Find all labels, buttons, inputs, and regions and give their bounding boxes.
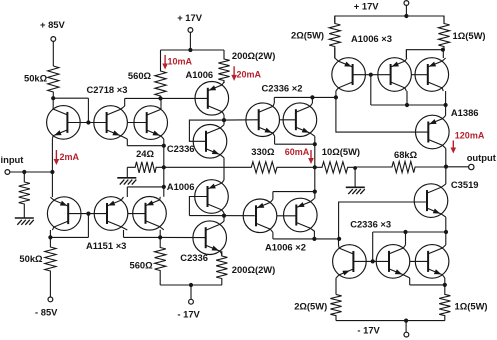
wire Q17 collector xyxy=(445,91,447,105)
wire Q9 collector xyxy=(223,213,225,216)
resistor 24ohm xyxy=(127,148,164,173)
label 2ohm lower xyxy=(294,300,327,311)
node output xyxy=(444,165,448,169)
transistor Q16 A1006 xyxy=(378,58,412,92)
wire base to Wtop xyxy=(370,75,372,105)
current 10mA xyxy=(162,55,192,70)
node 10-68k xyxy=(353,166,357,170)
svg-text:A1386: A1386 xyxy=(451,107,479,118)
svg-text:560Ω: 560Ω xyxy=(130,259,154,270)
base line row2 xyxy=(67,213,145,215)
wire Q13 emitter xyxy=(273,192,315,200)
svg-text:200Ω(2W): 200Ω(2W) xyxy=(232,50,275,61)
svg-text:330Ω: 330Ω xyxy=(251,146,275,157)
svg-text:1Ω(5W): 1Ω(5W) xyxy=(455,300,488,311)
svg-text:50kΩ: 50kΩ xyxy=(24,73,48,84)
node T4 collector xyxy=(48,235,52,239)
wire Q12 collector xyxy=(311,97,313,103)
svg-text:68kΩ: 68kΩ xyxy=(394,149,418,160)
svg-text:2Ω(5W): 2Ω(5W) xyxy=(291,30,324,41)
resistor 200 upper xyxy=(218,50,229,83)
transistor Q17 A1006 xyxy=(415,58,449,92)
wire Q19 collector xyxy=(445,167,447,185)
wire Q7 collector xyxy=(223,115,225,120)
transistor Q3 C2718 xyxy=(134,106,168,140)
label C2336 x2 xyxy=(262,83,303,94)
transistor Q13 A1006 xyxy=(243,199,277,233)
svg-text:C3519: C3519 xyxy=(451,179,479,190)
node pair2 emitter bus xyxy=(313,190,317,194)
svg-text:A1006: A1006 xyxy=(167,181,195,192)
wire Q14 collector xyxy=(313,232,315,239)
wire Q16 emitter xyxy=(405,50,407,58)
wire X1 L xyxy=(189,120,224,141)
svg-text:C2336 ×2: C2336 ×2 xyxy=(262,83,303,94)
node base U xyxy=(369,73,373,77)
svg-text:50kΩ: 50kΩ xyxy=(19,253,43,264)
wire +17V right drop xyxy=(405,5,407,16)
svg-text:C2336 ×3: C2336 ×3 xyxy=(350,218,391,229)
svg-text:2Ω(5W): 2Ω(5W) xyxy=(294,300,327,311)
svg-text:+ 85V: + 85V xyxy=(40,19,66,30)
resistor 2ohm upper xyxy=(329,16,340,59)
wire Q20 emitter xyxy=(335,278,337,295)
svg-text:2mA: 2mA xyxy=(60,152,80,162)
wire Q3 collector xyxy=(160,98,162,106)
transistor Q11 C2336 xyxy=(246,103,280,137)
terminal +17V mid xyxy=(177,12,203,32)
transistor Q7 A1006 xyxy=(195,82,229,116)
wire Q16 collector xyxy=(406,91,408,105)
resistor 68k xyxy=(355,149,446,172)
wire Q11 emitter xyxy=(275,136,315,144)
svg-text:60mA: 60mA xyxy=(285,147,310,157)
node 24 right xyxy=(162,165,166,169)
wire Wbot xyxy=(373,231,446,233)
node Q20 collector xyxy=(337,237,341,241)
svg-text:A1006: A1006 xyxy=(186,69,214,80)
svg-text:+ 17V: + 17V xyxy=(354,0,380,11)
wire Q2 emitter xyxy=(127,139,164,146)
svg-text:10mA: 10mA xyxy=(168,57,193,67)
wire +17V drop xyxy=(189,32,191,50)
resistor 50k upper xyxy=(24,66,59,98)
transistor Q22 C2336 xyxy=(415,245,449,279)
wire emitter bus xyxy=(163,146,165,187)
node Q14 collector xyxy=(312,237,316,241)
svg-text:10Ω(5W): 10Ω(5W) xyxy=(322,146,360,157)
svg-text:200Ω(2W): 200Ω(2W) xyxy=(232,264,275,275)
wire to Q5 emitter xyxy=(127,187,164,197)
wire Q1 collector xyxy=(52,98,54,106)
rail -17V right xyxy=(336,320,445,322)
label output xyxy=(467,152,496,163)
transistor Q19 C3519 xyxy=(414,184,448,218)
label C3519 xyxy=(451,179,479,190)
wire +85V to R1 xyxy=(52,41,54,66)
label C2718 x3 xyxy=(87,84,128,95)
wire Wtop xyxy=(371,104,446,106)
wire node to base drop xyxy=(53,98,88,122)
label A1006 lower xyxy=(167,181,195,192)
node base V xyxy=(371,259,375,263)
node 1ohm lower top xyxy=(443,283,447,287)
resistor 2ohm lower xyxy=(330,295,341,321)
wire Q21 emitter xyxy=(410,278,445,285)
node +17V xyxy=(188,48,192,52)
wire Q10 collector xyxy=(223,216,225,222)
wire Q22 collector xyxy=(445,232,447,245)
ground 10ohm xyxy=(346,187,365,194)
current 60mA xyxy=(285,147,314,164)
base line V row xyxy=(354,260,429,262)
wire node to base drop lower xyxy=(50,214,88,238)
ground 24ohm xyxy=(117,178,136,185)
rail +17V right xyxy=(335,16,444,23)
terminal output xyxy=(469,164,474,169)
wire Q10 emitter xyxy=(221,254,223,256)
svg-text:A1006 ×2: A1006 ×2 xyxy=(265,241,306,252)
transistor Q6 A1151 xyxy=(133,197,167,231)
wire Q21 collector xyxy=(405,232,407,245)
wire Q20 collector xyxy=(338,239,340,245)
label 50k lower xyxy=(19,253,43,264)
label 1ohm lower xyxy=(455,300,488,311)
svg-text:+ 17V: + 17V xyxy=(177,12,203,23)
resistor 200 lower xyxy=(216,251,227,285)
wire base to Wbot xyxy=(372,232,374,261)
label C2336 upper xyxy=(167,143,195,154)
base wire Q9 L xyxy=(189,197,207,216)
wire input xyxy=(10,171,53,173)
wire Q22 emitter xyxy=(444,278,446,285)
resistor 330 xyxy=(164,146,315,173)
node pair emitter bus xyxy=(313,142,317,146)
base wire Q10 xyxy=(160,236,206,238)
label 200 upper xyxy=(232,50,275,61)
node Wtop mid xyxy=(405,103,409,107)
base wire pair2 xyxy=(277,215,297,217)
svg-text:output: output xyxy=(467,152,496,163)
label A1006 x2 xyxy=(265,241,306,252)
svg-text:- 85V: - 85V xyxy=(35,307,58,318)
transistor Q14 A1006 xyxy=(284,198,318,232)
wire emitters down xyxy=(314,136,316,198)
transistor Q2 C2718 xyxy=(94,106,128,140)
wire Q6 collector xyxy=(159,230,161,238)
terminal -17V mid xyxy=(177,299,200,319)
resistor 1ohm upper xyxy=(438,16,449,50)
transistor Q1 C2718 xyxy=(47,106,81,140)
wire Q15 emitter xyxy=(334,48,336,58)
svg-text:input: input xyxy=(1,154,24,165)
transistor Q21 C2336 xyxy=(376,245,410,279)
node rail lower xyxy=(404,319,408,323)
wire -17V right drop xyxy=(405,321,407,333)
node X1 xyxy=(222,118,226,122)
svg-text:24Ω: 24Ω xyxy=(136,148,154,159)
transistor Q9 A1006 xyxy=(195,180,229,214)
node input emitters xyxy=(50,170,54,174)
wire Q13 collector xyxy=(273,232,339,239)
wire Q3 emitter xyxy=(163,139,165,146)
node 560 upper xyxy=(158,96,162,100)
resistor 560 upper xyxy=(128,50,166,98)
node 560 lower xyxy=(158,235,162,239)
node T1 collector xyxy=(51,96,55,100)
svg-text:560Ω: 560Ω xyxy=(128,70,152,81)
transistor Q15 A1006 xyxy=(332,58,366,92)
transistor Q20 C2336 xyxy=(333,245,367,279)
label A1006 upper xyxy=(186,69,214,80)
svg-text:C2336: C2336 xyxy=(167,143,195,154)
transistor Q4 A1151 xyxy=(47,197,81,231)
resistor 50k lower xyxy=(45,237,56,297)
wire Q7 emitter xyxy=(223,82,225,83)
transistor Q18 A1386 xyxy=(416,115,450,149)
node 330-10 xyxy=(313,165,317,169)
wire to A1386 base xyxy=(336,97,429,132)
wire Q19 emitter xyxy=(445,217,447,232)
node X2 xyxy=(222,214,226,218)
svg-text:A1006 ×3: A1006 ×3 xyxy=(351,33,392,44)
resistor 560 lower xyxy=(155,237,166,285)
transistor Q5 A1151 xyxy=(94,197,128,231)
terminal input xyxy=(5,170,10,175)
svg-text:20mA: 20mA xyxy=(237,70,262,80)
wire Q18 emitter xyxy=(445,105,447,116)
label 2ohm upper xyxy=(291,30,324,41)
label A1151 x3 xyxy=(86,240,126,251)
svg-text:- 17V: - 17V xyxy=(357,325,380,336)
transistor Q10 C2336 xyxy=(193,221,227,255)
wire 10 to ground xyxy=(354,167,356,187)
label 200 lower xyxy=(232,264,275,275)
current 20mA xyxy=(231,66,261,81)
power terminal +85V xyxy=(40,19,66,41)
svg-text:- 17V: - 17V xyxy=(177,308,200,319)
transistor Q8 C2336 xyxy=(193,125,227,159)
wire Q11 collector xyxy=(274,97,336,103)
label 1ohm upper xyxy=(453,30,486,41)
base line row1 xyxy=(67,122,146,124)
wire 24 to ground xyxy=(126,167,128,178)
wire Q5 collector xyxy=(124,230,161,237)
current 2mA xyxy=(54,150,80,165)
svg-text:A1151 ×3: A1151 ×3 xyxy=(86,240,126,251)
resistor 1ohm lower xyxy=(439,285,450,321)
base wire C3519 xyxy=(339,202,426,239)
wire Q17 emitter xyxy=(442,50,444,58)
node Wbot right xyxy=(444,230,448,234)
resistor 10ohm xyxy=(315,146,360,173)
wire T1 emitter xyxy=(51,139,53,172)
svg-text:120mA: 120mA xyxy=(455,130,485,140)
wire Q18 collector xyxy=(445,149,447,167)
svg-text:C2718 ×3: C2718 ×3 xyxy=(87,84,128,95)
node input shunt xyxy=(22,170,26,174)
wire T4 emitter xyxy=(51,172,53,197)
resistor input shunt xyxy=(19,172,30,218)
node Wtop right xyxy=(444,103,448,107)
wire 1ohm to U2 xyxy=(406,50,443,58)
wire Q2 collector xyxy=(125,98,161,106)
wire Q8 collector xyxy=(223,120,225,125)
node emitters top xyxy=(162,144,166,148)
terminal -85V xyxy=(35,297,58,318)
node -17V xyxy=(189,283,193,287)
node Wbot mid xyxy=(403,230,407,234)
base line U row xyxy=(353,74,428,76)
rail +17V mid xyxy=(161,49,225,51)
label C2336 x3 xyxy=(350,218,391,229)
node 1ohm bottom xyxy=(441,48,445,52)
wire output xyxy=(446,166,469,168)
wire Q6 emitter xyxy=(163,187,165,197)
base wire Q7 xyxy=(161,97,208,99)
node base row2 xyxy=(86,212,90,216)
label A1006 x3 xyxy=(351,33,392,44)
terminal -17V right xyxy=(357,325,408,337)
ground input xyxy=(15,218,34,225)
label 560 lower xyxy=(130,259,154,270)
wire -17V drop xyxy=(190,285,192,299)
node rail xyxy=(404,14,408,18)
wire Q15 collector xyxy=(335,91,337,97)
wire Q8 emitter to Q9 emitter xyxy=(223,158,225,180)
base wire pair xyxy=(224,119,296,121)
label C2336 lower xyxy=(180,252,208,263)
transistor Q12 C2336 xyxy=(283,103,317,137)
node Q12 collector xyxy=(310,95,314,99)
wire T4 collector xyxy=(49,230,51,237)
node Q15 collector xyxy=(334,95,338,99)
label A1386 xyxy=(451,107,479,118)
wire X2 row xyxy=(189,215,256,217)
svg-text:1Ω(5W): 1Ω(5W) xyxy=(453,30,486,41)
terminal +17V right xyxy=(354,0,409,11)
rail -17V mid xyxy=(160,284,222,286)
node base row1 xyxy=(86,120,90,124)
input label xyxy=(1,154,24,165)
node emitters bottom xyxy=(162,185,166,189)
current 120mA xyxy=(451,130,485,153)
